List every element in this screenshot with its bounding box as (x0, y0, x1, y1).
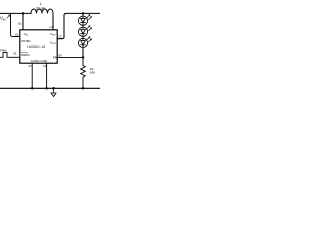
svg-text:PWM: PWM (0, 49, 6, 53)
PWM source squarewave (0, 53, 10, 58)
svg-text:FB: FB (53, 56, 57, 60)
wire GND drop (46, 63, 48, 88)
svg-text:GND: GND (41, 59, 49, 63)
wire SHDN (10, 56, 20, 58)
svg-text:22 µH: 22 µH (36, 6, 45, 10)
svg-text:A3: A3 (13, 51, 17, 55)
wire LED cathode to FB node (82, 48, 84, 58)
svg-text:C1: C1 (50, 25, 54, 29)
wire VIN pin drop (22, 13, 24, 29)
ic U1 LM3501-16 box (20, 30, 57, 63)
svg-text:VIN: VIN (0, 16, 6, 22)
inductor L (31, 9, 53, 13)
ground symbol (52, 87, 55, 90)
LED D2 (78, 25, 91, 36)
svg-text:SHDN: SHDN (21, 53, 30, 57)
LED D1 (78, 13, 91, 25)
wire ground rail (0, 87, 101, 89)
node R2 bottom (82, 87, 85, 90)
node VIN junction (22, 12, 25, 15)
node GND (45, 87, 48, 90)
wire FB (57, 56, 83, 58)
svg-text:C2: C2 (59, 35, 63, 39)
node AGND (31, 87, 34, 90)
svg-text:B1: B1 (19, 21, 23, 25)
svg-text:AGND: AGND (31, 59, 41, 63)
wire SW drop (52, 13, 54, 29)
svg-text:A2: A2 (15, 33, 19, 37)
svg-text:A1: A1 (29, 64, 33, 68)
resistor R2 (81, 57, 86, 88)
wire top VIN rail (0, 12, 31, 14)
wire AGND drop (31, 63, 33, 88)
node LED anode (82, 12, 85, 15)
svg-text:C3: C3 (43, 64, 47, 68)
svg-text:CNTRL: CNTRL (21, 39, 31, 43)
svg-text:B3: B3 (59, 53, 63, 57)
wire CNTRL from VIN (11, 13, 20, 36)
LED D3 (78, 36, 91, 47)
svg-text:LM3501-16: LM3501-16 (27, 45, 45, 49)
label VIN with arrow (0, 15, 10, 22)
svg-text:L: L (40, 2, 42, 6)
svg-text:24Ω: 24Ω (90, 71, 95, 75)
wire VOUT to top rail (57, 13, 101, 38)
node FB junction (82, 56, 85, 59)
